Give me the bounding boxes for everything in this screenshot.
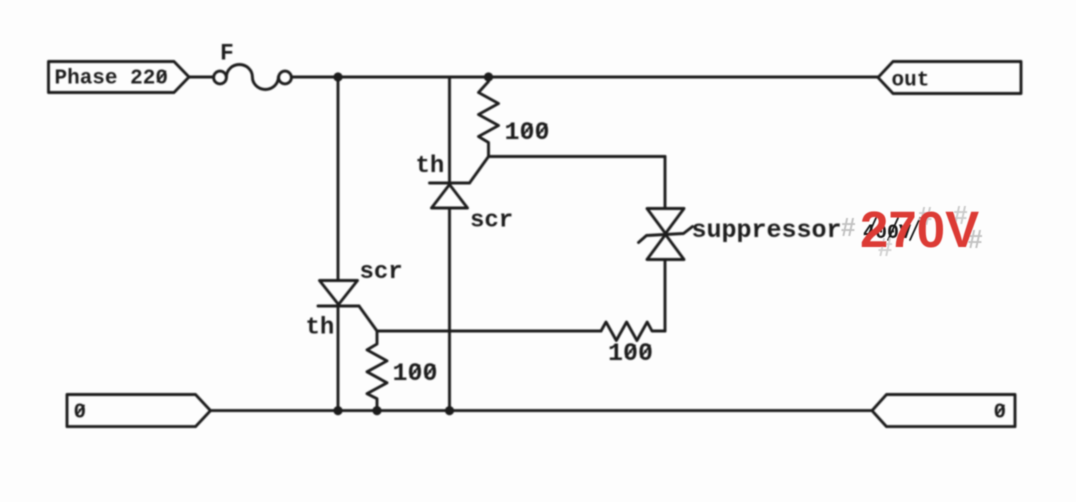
fuse F right terminal [279,71,292,84]
junction node A top [333,72,342,81]
svg-text:Phase 220: Phase 220 [55,68,168,91]
fuse F element [226,65,278,90]
SCR1 gate wire [470,157,489,184]
net flag Phase 220 [49,62,190,93]
svg-text:th: th [306,315,335,342]
net flag 0 left [67,395,211,427]
resistor R2 100 vertical [367,331,387,411]
svg-text:#: # [841,212,856,242]
junction dot bottom x=338 [333,406,342,415]
wire bottom 0 rail [210,409,872,412]
label 100 (R1) [505,118,550,147]
svg-text:scr: scr [470,208,513,235]
svg-text:out: out [892,70,930,93]
wire suppressor top [664,157,667,209]
svg-text:suppressor: suppressor [692,216,842,245]
wire SCR1 anode to 0 rail [448,208,451,411]
wire R3 to suppressor bottom [664,260,667,332]
fuse F left terminal [214,71,227,84]
watermark hash marks [841,200,983,262]
thyristor SCR2 cathode bar [318,305,359,308]
label 100 (R3) [608,339,653,368]
junction dot bottom x=449.5 [445,406,454,415]
wire SCR2 cathode to 0 rail [337,306,340,411]
thyristor SCR2 triangle [320,281,358,305]
wire top rail [292,76,879,79]
resistor R1 100 vertical [479,77,499,157]
crossed-out label 400V [863,218,920,245]
wire SCR1 cathode vertical x=449.5 [448,77,451,183]
thyristor SCR1 cathode bar [430,182,470,185]
svg-text:100: 100 [505,118,550,147]
junction dot bottom x=377 [372,406,381,415]
svg-text:270V: 270V [860,201,979,258]
suppressor D1 middle bar [639,227,693,243]
net flag 0 right [872,395,1015,427]
wire y=156 R1 to suppressor [489,155,666,158]
wire SCR2 anode vertical x=338 [337,77,340,281]
svg-text:F: F [220,41,234,67]
wire flag to fuse [189,76,214,79]
svg-text:th: th [416,153,445,180]
wire gate rail y=331 [377,330,601,333]
svg-text:100: 100 [608,339,653,368]
label 100 (R2) [393,359,438,388]
suppressor D1 bottom triangle [647,235,684,260]
svg-text:100: 100 [393,359,438,388]
thyristor SCR1 triangle [432,185,468,209]
suppressor D1 top triangle [647,209,684,234]
svg-text:scr: scr [360,259,403,286]
junction node B top [484,72,493,81]
resistor R3 100 horizontal [601,322,665,341]
net flag out [878,62,1021,94]
SCR2 gate wire [359,306,377,331]
